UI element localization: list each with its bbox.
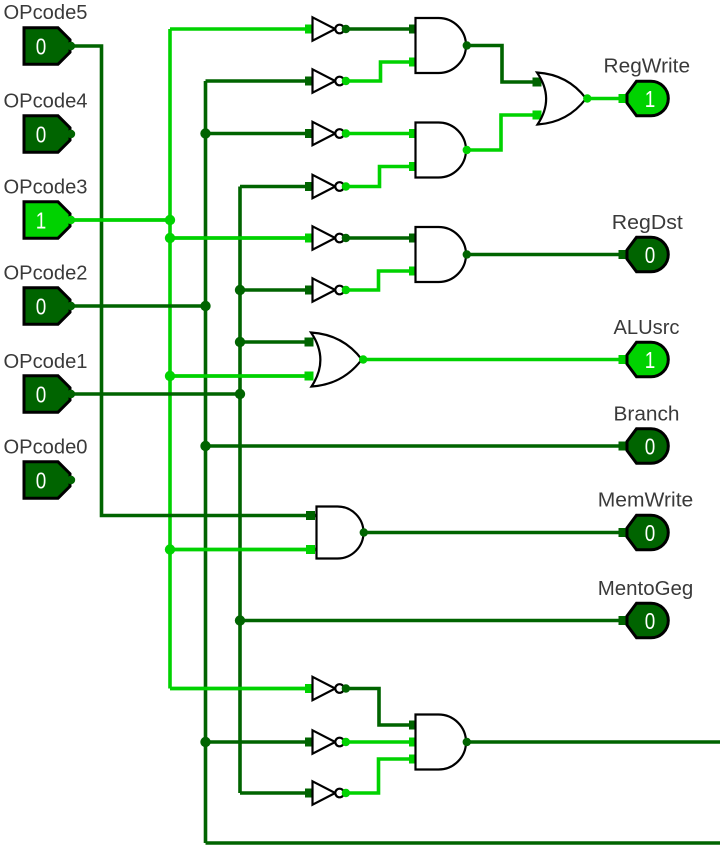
svg-text:1: 1 xyxy=(645,86,656,112)
svg-text:0: 0 xyxy=(645,520,656,546)
wire OR2 output to ALUsrc pin xyxy=(363,358,623,362)
wire bus to NOT8 input xyxy=(206,740,312,744)
wire bus to NOT7 input xyxy=(170,687,311,691)
node OPcode2 bus to NOT8 xyxy=(200,737,210,747)
pin OPcode0 xyxy=(24,462,70,498)
node OPcode3 bus to AND4 xyxy=(165,544,175,554)
and-gate AND5 (NOT7, NOT8, NOT9 -> right edge) xyxy=(409,715,471,770)
or-gate OR2 (OPcode1, OPcode3 -> ALUsrc) xyxy=(305,333,368,387)
svg-text:1: 1 xyxy=(645,347,656,373)
wire OPcode5 pin to AND4 upper input xyxy=(70,46,317,516)
svg-text:MemWrite: MemWrite xyxy=(598,490,694,512)
svg-text:0: 0 xyxy=(645,242,656,268)
wire NOT6 output to AND3 lower input xyxy=(346,271,416,290)
wire bus to OR2 lower input xyxy=(170,374,310,378)
wire bus to AND4 lower input (overlay) xyxy=(170,548,317,552)
inverter NOT2 (input OPcode2) xyxy=(305,69,350,92)
wire AND5 output to right edge xyxy=(467,740,720,744)
node OPcode4 pin port xyxy=(67,130,75,138)
wire NOT4 output to AND2 lower input xyxy=(346,167,416,187)
inverter NOT6 (input OPcode1) xyxy=(305,278,350,301)
pin ALUsrc (value 1) xyxy=(619,342,669,377)
pin OPcode3 xyxy=(24,202,70,238)
wire bus to Branch pin xyxy=(206,444,624,448)
node OPcode3 pin port xyxy=(67,216,75,224)
wire bus to NOT6 input xyxy=(240,288,311,292)
pin RegWrite (value 1) xyxy=(619,81,669,116)
wire bus to NOT2 input xyxy=(206,79,312,83)
svg-text:0: 0 xyxy=(36,122,47,148)
wire bus to NOT7 input (overlay) xyxy=(170,687,311,691)
node OPcode2 bus at pin xyxy=(200,301,210,311)
wire OR1 output to RegWrite pin xyxy=(586,97,623,101)
wire NOT9 output to AND5 lower input xyxy=(346,759,416,793)
wire bus to NOT4 input xyxy=(240,185,311,189)
node OPcode1 bus to OR2 xyxy=(235,337,245,347)
pin Branch (value 0) xyxy=(619,429,669,464)
svg-text:RegDst: RegDst xyxy=(612,212,683,234)
pin OPcode2 xyxy=(24,288,70,324)
svg-text:MentoGeg: MentoGeg xyxy=(598,578,694,600)
svg-text:OPcode3: OPcode3 xyxy=(4,177,88,199)
wire NOT1 output to AND1 upper input xyxy=(346,27,416,31)
svg-text:OPcode1: OPcode1 xyxy=(4,351,88,373)
wire AND2 output to OR1 lower input xyxy=(467,115,538,150)
inverter NOT5 (input OPcode3) xyxy=(305,226,350,249)
pin OPcode4 xyxy=(24,116,70,152)
inverter NOT3 (input OPcode2) xyxy=(305,122,350,145)
and-gate AND4 (OPcode5, OPcode3 -> MemWrite) xyxy=(306,507,368,559)
node OPcode3 bus to OR2 xyxy=(165,371,175,381)
node OPcode1 bus to NOT6 xyxy=(235,285,245,295)
node OPcode1 pin port xyxy=(67,390,75,398)
svg-text:0: 0 xyxy=(645,434,656,460)
svg-text:OPcode4: OPcode4 xyxy=(4,91,88,113)
wire NOT8 output to AND5 middle input xyxy=(346,740,416,744)
inverter NOT9 (input OPcode1, bottom group) xyxy=(305,781,350,804)
wire NOT5 output to AND3 upper input xyxy=(346,236,416,240)
svg-text:0: 0 xyxy=(36,468,47,494)
svg-text:0: 0 xyxy=(36,34,47,60)
wire bus to OR2 upper input xyxy=(240,340,310,344)
wire bus to AND4 lower input xyxy=(170,548,317,552)
inverter NOT7 (input OPcode3, bottom group) xyxy=(305,677,350,700)
wire OPcode3 pin to bus (overlay) xyxy=(70,218,170,222)
wire bus to OR2 lower input (overlay) xyxy=(170,374,310,378)
wire AND3 output to RegDst pin xyxy=(467,253,624,257)
pin OPcode1 xyxy=(24,376,70,412)
svg-text:0: 0 xyxy=(36,294,47,320)
wire bus to NOT5 input xyxy=(170,236,311,240)
wire bus to MentoGeg pin xyxy=(240,619,623,623)
node OPcode3 bus at pin xyxy=(165,215,175,225)
and-gate AND3 (NOT5, NOT6 -> RegDst) xyxy=(409,227,471,282)
node OPcode5 pin port xyxy=(67,42,75,50)
node OPcode3 bus to NOT5 xyxy=(165,233,175,243)
wire OPcode2 pin to bus xyxy=(70,304,206,308)
inverter NOT1 (input OPcode3) xyxy=(305,17,350,40)
svg-text:OPcode5: OPcode5 xyxy=(4,2,88,24)
pin RegDst (value 0) xyxy=(619,237,669,272)
inverter NOT4 (input OPcode1) xyxy=(305,175,350,198)
wire NOT3 output to AND2 upper input xyxy=(346,132,416,136)
node OPcode2 bus to NOT3 xyxy=(200,128,210,138)
wire bus to NOT9 input xyxy=(240,791,311,795)
pin MentoGeg (value 0) xyxy=(619,603,669,638)
svg-text:1: 1 xyxy=(36,208,47,234)
wire vertical bus OPcode3 xyxy=(168,29,172,689)
wire NOT7 output to AND5 upper input xyxy=(346,689,416,726)
and-gate AND1 (NOT1, NOT2 -> OR1) xyxy=(409,18,471,73)
or-gate OR1 (AND1, AND2 -> RegWrite) xyxy=(533,73,592,125)
wire NOT2 output to AND1 lower input xyxy=(346,62,416,81)
node OPcode1 bus to MentoGeg xyxy=(235,615,245,625)
wire vertical bus OPcode1 xyxy=(238,187,242,794)
inverter NOT8 (input OPcode2, bottom group) xyxy=(305,730,350,753)
wire AND1 output to OR1 upper input xyxy=(467,46,538,83)
and-gate AND2 (NOT3, NOT4 -> OR1) xyxy=(409,123,471,178)
wire OPcode3 pin to bus xyxy=(70,218,170,222)
wire bus to NOT1 input xyxy=(170,27,311,31)
node OPcode2 pin port xyxy=(67,302,75,310)
svg-text:RegWrite: RegWrite xyxy=(604,56,691,78)
svg-text:OPcode2: OPcode2 xyxy=(4,263,88,285)
wire bottom output to right edge xyxy=(206,841,720,845)
node OPcode0 pin port xyxy=(67,476,75,484)
wire AND4 output to MemWrite pin xyxy=(364,531,624,535)
pin MemWrite (value 0) xyxy=(619,515,669,550)
wire vertical bus OPcode2 xyxy=(204,81,208,843)
node OPcode1 bus at pin xyxy=(235,389,245,399)
pin OPcode5 xyxy=(24,28,70,64)
svg-text:Branch: Branch xyxy=(614,404,680,426)
wire bus to NOT5 input (overlay) xyxy=(170,236,311,240)
node OPcode2 bus to Branch xyxy=(200,441,210,451)
svg-text:ALUsrc: ALUsrc xyxy=(614,317,680,339)
svg-text:0: 0 xyxy=(36,382,47,408)
wire bus to NOT3 input xyxy=(206,132,312,136)
svg-text:OPcode0: OPcode0 xyxy=(4,437,88,459)
svg-text:0: 0 xyxy=(645,608,656,634)
wire OPcode1 pin to bus xyxy=(70,392,240,396)
